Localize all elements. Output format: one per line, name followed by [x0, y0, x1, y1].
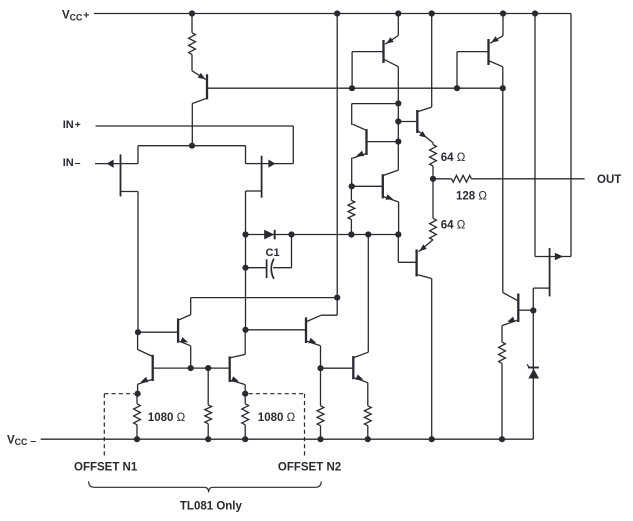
node VCC+ supply label — [62, 10, 89, 23]
wire Q12 base link — [321, 367, 353, 369]
wire J1 drain down — [137, 192, 139, 333]
junction dot offset N2 node — [242, 391, 248, 397]
value label 1080 ohm right — [258, 412, 296, 424]
transistor J3 (JFET current source) — [533, 248, 571, 311]
wire to OUT — [471, 178, 584, 180]
resistor 1080 ohm right — [242, 394, 249, 440]
brace TL081 only — [89, 481, 322, 492]
junction dot offset N1 node — [135, 391, 141, 397]
resistor 64 ohm lower — [430, 179, 437, 240]
junction dot Q11 emitter node — [317, 365, 323, 371]
transistor Q3 (PNP diode-connected bias) — [457, 14, 503, 89]
resistor R mid (Q4 emitter) — [348, 186, 355, 234]
wire J2 drain down — [245, 191, 247, 235]
junction dot tail — [189, 143, 195, 149]
diode D1 — [264, 230, 275, 240]
wire VCC+ branch to J3 source — [534, 14, 536, 257]
wire VCC+ top rail — [94, 13, 571, 15]
wire Miller node rail — [246, 234, 399, 236]
wire cascode collector rail — [191, 297, 338, 299]
wire Q2 collector down — [397, 67, 399, 171]
junction dots on VCC- rail — [134, 436, 505, 442]
value label 128 ohm — [456, 191, 487, 203]
diode D2 — [527, 311, 539, 440]
transistor Q13 (NPN output) — [502, 293, 533, 343]
resistor R1 (bias, from VCC+) — [189, 14, 196, 71]
wire Q11 base link — [246, 329, 306, 331]
resistor 1080 ohm left — [134, 394, 141, 440]
resistor 64 ohm upper — [430, 143, 437, 179]
svg-text:1080 Ω: 1080 Ω — [148, 412, 186, 424]
arrow on J1 gate — [107, 160, 114, 168]
transistor Q12 (NPN) — [353, 235, 368, 406]
label C1 — [266, 247, 280, 259]
value label 1080 ohm left — [148, 412, 186, 424]
node OFFSET N2 label — [278, 462, 341, 474]
transistor Q1 (PNP tail current source) — [192, 71, 207, 146]
wire IN- lead — [95, 163, 120, 165]
transistor Q10 (NPN mirror right) — [230, 330, 246, 394]
svg-text:OFFSET N2: OFFSET N2 — [278, 462, 341, 474]
dashed lead OFFSET N1 — [104, 394, 134, 459]
svg-text:OFFSET N1: OFFSET N1 — [74, 462, 138, 474]
junction dots on VCC+ rail — [189, 10, 538, 16]
svg-text:TL081 Only: TL081 Only — [180, 500, 243, 512]
node OFFSET N1 label — [74, 462, 138, 474]
capacitor C1 — [246, 235, 292, 279]
resistor 128 ohm — [433, 175, 471, 182]
svg-text:64 Ω: 64 Ω — [441, 152, 466, 164]
dashed lead OFFSET N2 — [249, 394, 305, 459]
value label 64 ohm upper — [441, 152, 466, 164]
wire VCC- bottom rail — [41, 438, 534, 440]
label TL081 Only — [180, 500, 243, 512]
transistor Q9 (NPN mirror left) — [138, 332, 153, 394]
transistor Q5 (NPN gain stage) — [398, 107, 433, 143]
svg-text:VCC –: VCC – — [7, 434, 36, 447]
node IN- input — [63, 157, 81, 169]
transistor J1 (input JFET, inverting) — [121, 146, 139, 197]
transistor Q4 (NPN) — [352, 104, 399, 187]
resistor R (Q11 emitter) — [317, 368, 324, 439]
junction dot output node — [430, 176, 436, 182]
transistor Q8 (NPN cascode lower-left) — [138, 298, 191, 369]
svg-text:1080 Ω: 1080 Ω — [258, 412, 296, 424]
junction dot C1 left — [242, 265, 248, 271]
wire bias base rail — [208, 87, 503, 89]
wire top rail right branch down — [570, 14, 572, 257]
svg-text:IN +: IN + — [63, 119, 81, 131]
value label 64 ohm lower — [441, 219, 466, 231]
junction dots on Q2 collector line — [395, 100, 401, 144]
svg-text:128 Ω: 128 Ω — [456, 191, 487, 203]
junction dot x337 — [334, 295, 340, 301]
node IN+ input — [63, 119, 81, 131]
svg-text:64 Ω: 64 Ω — [441, 219, 466, 231]
transistor Q2 (PNP bias mirror) — [352, 14, 398, 89]
transistor J2 (input JFET, non-inverting) — [246, 146, 294, 198]
transistor Q6 (PNP output driver) — [398, 235, 433, 279]
transistor Q7 (NPN second stage) — [352, 170, 399, 234]
wire J2 drain continues down — [245, 235, 247, 330]
wire VCC+ branch down (x337) — [336, 14, 338, 298]
svg-text:IN –: IN – — [63, 157, 81, 169]
junction dots Miller rail — [242, 231, 401, 237]
wire IN+ to right JFET gate — [96, 126, 294, 164]
svg-text:VCC +: VCC + — [62, 10, 89, 23]
node VCC- supply label — [7, 434, 36, 447]
wire Q5 collector to VCC+ — [431, 14, 433, 108]
svg-text:OUT: OUT — [597, 174, 621, 186]
svg-text:C1: C1 — [266, 247, 280, 259]
resistor R (output emitter) — [499, 342, 506, 439]
wire mirror base rail — [154, 367, 229, 369]
junction dot Q4 emitter node — [349, 183, 355, 189]
junction dots on bias base rail — [349, 85, 506, 91]
node OUT label — [597, 174, 621, 186]
junction dot Q10 collector node — [242, 327, 248, 333]
junction dot J1 drain node — [135, 329, 141, 335]
wire tail node — [138, 145, 246, 147]
junction dot J3 drain node — [530, 307, 536, 313]
wire Q3 collector down — [502, 67, 504, 293]
transistor Q11 (NPN) — [306, 298, 337, 369]
resistor R mirror middle — [205, 368, 212, 439]
wire Q6 collector to VCC- rail — [431, 279, 433, 440]
junction dots mirror base rail — [188, 365, 212, 371]
resistor R (Q12 emitter) — [364, 406, 371, 439]
